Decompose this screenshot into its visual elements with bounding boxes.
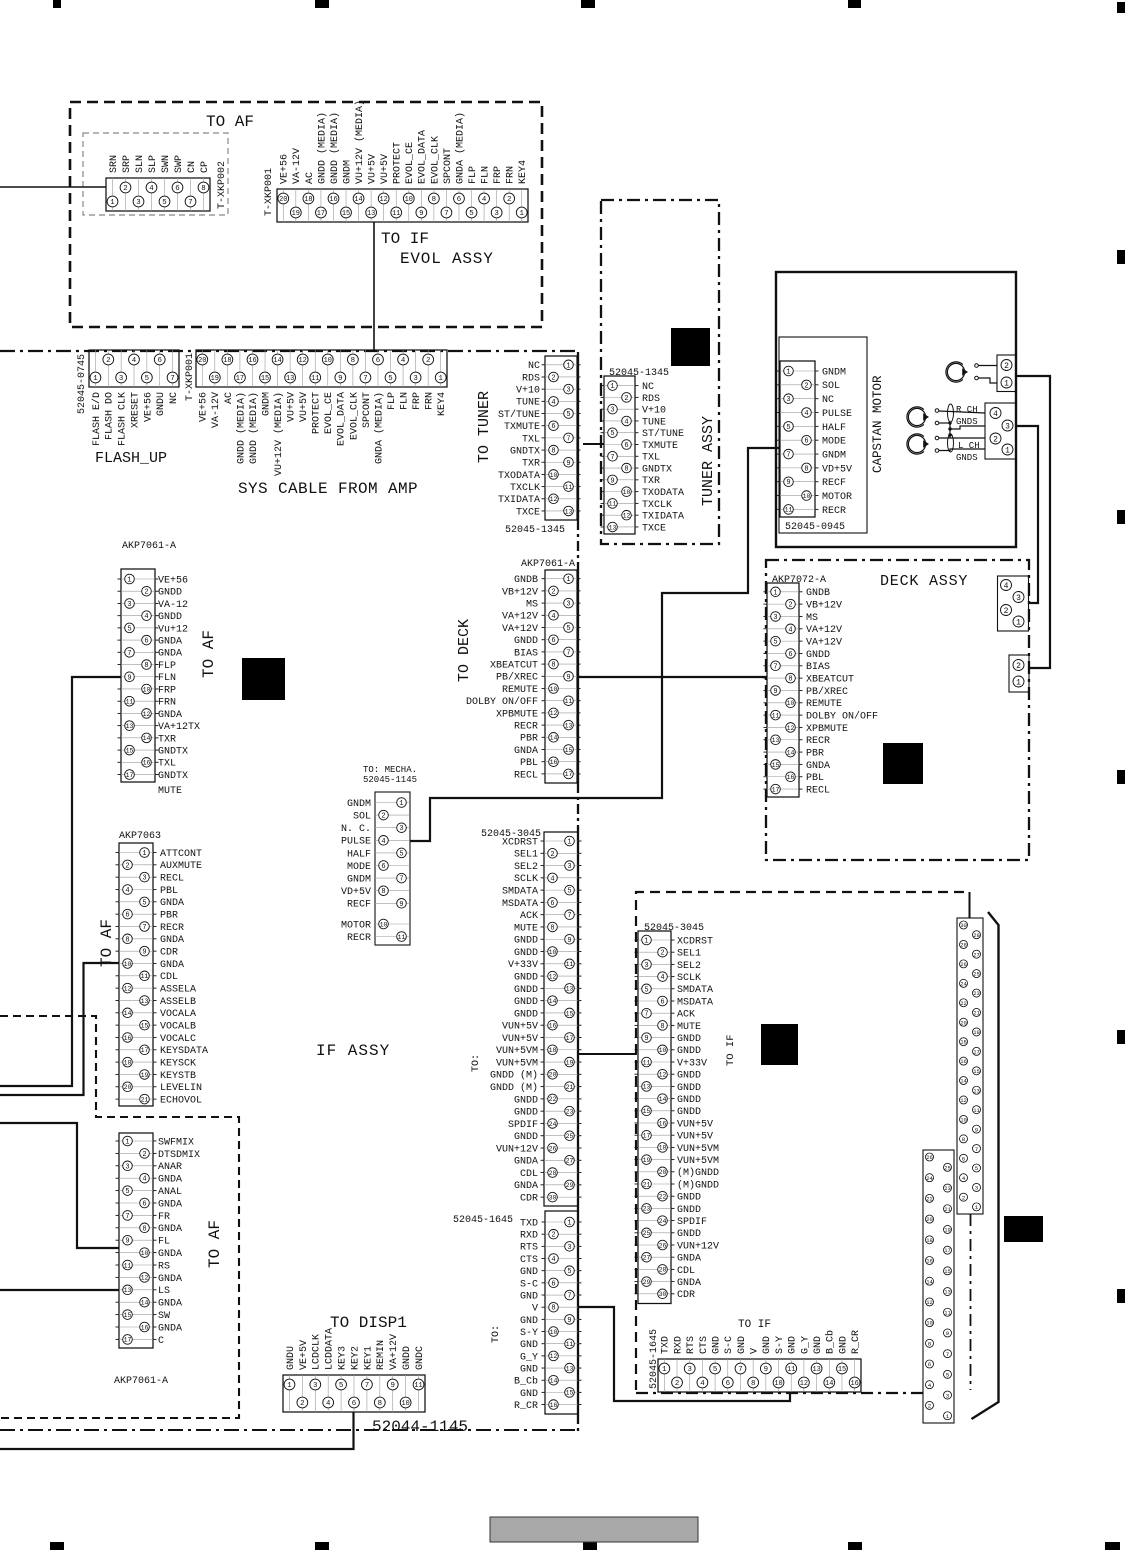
- svg-text:R CH: R CH: [956, 405, 978, 415]
- svg-text:25: 25: [566, 1133, 574, 1140]
- svg-text:7: 7: [127, 650, 131, 658]
- svg-text:CTS: CTS: [699, 1336, 710, 1354]
- svg-text:24: 24: [926, 1175, 933, 1182]
- svg-text:TXCE: TXCE: [642, 523, 666, 534]
- svg-text:7: 7: [567, 912, 571, 920]
- svg-text:PULSE: PULSE: [822, 409, 852, 420]
- svg-text:GNDA: GNDA: [158, 710, 182, 721]
- svg-text:1: 1: [644, 938, 648, 946]
- svg-text:11: 11: [565, 698, 573, 705]
- svg-text:4: 4: [788, 626, 792, 634]
- svg-text:GNDU: GNDU: [156, 392, 167, 416]
- svg-text:5: 5: [567, 1268, 571, 1276]
- svg-text:6: 6: [352, 1400, 356, 1408]
- svg-text:SCLK: SCLK: [514, 874, 538, 885]
- svg-text:14: 14: [659, 1096, 667, 1103]
- svg-text:11: 11: [126, 699, 134, 706]
- svg-text:3: 3: [688, 1366, 692, 1374]
- svg-text:8: 8: [432, 196, 436, 204]
- svg-text:XBEATCUT: XBEATCUT: [806, 675, 854, 686]
- svg-text:12: 12: [550, 710, 558, 717]
- svg-text:VU+5V: VU+5V: [368, 154, 379, 184]
- svg-text:TXD: TXD: [520, 1218, 538, 1229]
- svg-text:8: 8: [551, 1305, 555, 1313]
- svg-text:18: 18: [659, 1145, 667, 1152]
- svg-text:12: 12: [787, 725, 795, 732]
- svg-text:1: 1: [1005, 446, 1010, 455]
- svg-text:RECL: RECL: [806, 785, 830, 796]
- svg-text:VA+12V: VA+12V: [389, 1334, 400, 1370]
- svg-text:(M)GNDD: (M)GNDD: [677, 1179, 719, 1191]
- svg-text:AC: AC: [305, 172, 316, 184]
- svg-text:MS: MS: [806, 613, 818, 624]
- svg-text:24: 24: [549, 1121, 557, 1128]
- svg-text:9: 9: [567, 937, 571, 945]
- svg-text:3: 3: [773, 614, 777, 622]
- svg-text:MUTE: MUTE: [677, 1022, 701, 1033]
- svg-text:10: 10: [143, 686, 151, 693]
- chain line bottom left: [0, 1429, 578, 1431]
- svg-text:16: 16: [851, 1380, 859, 1388]
- svg-text:GND: GND: [788, 1336, 799, 1354]
- svg-text:V: V: [532, 1304, 538, 1315]
- svg-text:GNDA: GNDA: [160, 935, 184, 946]
- svg-text:B_Cb: B_Cb: [825, 1330, 837, 1354]
- registration mark right 5: [1117, 1289, 1125, 1303]
- svg-text:GNDA: GNDA: [158, 1274, 182, 1285]
- svg-text:7: 7: [566, 649, 570, 657]
- svg-text:1: 1: [946, 1413, 950, 1420]
- svg-text:FLASH E/D: FLASH E/D: [91, 392, 103, 446]
- svg-text:GNDD: GNDD: [514, 1009, 538, 1020]
- svg-text:4: 4: [551, 1256, 555, 1264]
- svg-text:27: 27: [973, 951, 980, 958]
- svg-text:NC: NC: [169, 392, 180, 404]
- svg-text:XRESET: XRESET: [130, 392, 141, 428]
- svg-text:2: 2: [426, 357, 430, 365]
- svg-text:4: 4: [660, 974, 664, 982]
- svg-text:9: 9: [567, 1317, 571, 1325]
- svg-text:30: 30: [960, 922, 967, 929]
- svg-text:11: 11: [785, 507, 793, 514]
- svg-text:14: 14: [787, 749, 795, 756]
- svg-text:RECF: RECF: [347, 900, 371, 911]
- svg-text:RECL: RECL: [514, 770, 538, 781]
- wire center 3045 pin19 to IF box: [578, 1053, 637, 1055]
- svg-text:2: 2: [962, 1194, 966, 1201]
- svg-text:1: 1: [773, 589, 777, 597]
- svg-text:52045-1645: 52045-1645: [649, 1329, 660, 1389]
- svg-text:2: 2: [381, 813, 385, 821]
- svg-text:7: 7: [365, 1382, 369, 1390]
- chain line right edge below strip: [970, 1214, 972, 1390]
- svg-text:5: 5: [339, 1382, 343, 1390]
- svg-text:5: 5: [145, 375, 149, 383]
- svg-text:14: 14: [550, 1378, 558, 1385]
- svg-text:10: 10: [550, 1329, 558, 1336]
- svg-text:1: 1: [1016, 618, 1021, 627]
- svg-text:VU+5V: VU+5V: [287, 392, 298, 422]
- svg-text:10: 10: [550, 472, 558, 479]
- svg-text:14: 14: [960, 1078, 967, 1085]
- svg-text:RECF: RECF: [822, 478, 846, 489]
- svg-text:ANAR: ANAR: [158, 1162, 182, 1173]
- registration mark bottom 1: [50, 1542, 64, 1550]
- svg-text:MUTE: MUTE: [514, 923, 538, 934]
- svg-text:GNDD: GNDD: [677, 1046, 701, 1057]
- svg-text:RDS: RDS: [642, 394, 660, 405]
- svg-text:6: 6: [144, 638, 148, 646]
- svg-text:7: 7: [786, 452, 790, 460]
- connector capstan 2pin: [997, 355, 1016, 392]
- svg-text:GNDTX: GNDTX: [158, 746, 188, 757]
- svg-text:4: 4: [1004, 582, 1009, 591]
- svg-text:23: 23: [944, 1185, 951, 1192]
- svg-text:20: 20: [926, 1216, 933, 1223]
- svg-text:1: 1: [439, 375, 444, 383]
- svg-text:SMDATA: SMDATA: [677, 985, 713, 996]
- svg-text:GNDA (MEDIA): GNDA (MEDIA): [454, 112, 466, 184]
- svg-text:GNDD: GNDD: [514, 936, 538, 947]
- svg-text:SPDIF: SPDIF: [677, 1217, 707, 1228]
- svg-text:13: 13: [566, 986, 574, 993]
- wire from EVOL T-XKP001 down to SYS cable connector: [373, 222, 375, 351]
- svg-text:GNDD: GNDD: [514, 636, 538, 647]
- svg-text:TXD: TXD: [661, 1336, 672, 1354]
- svg-text:1: 1: [1016, 678, 1021, 687]
- svg-text:SWP: SWP: [174, 155, 185, 173]
- svg-text:ACK: ACK: [520, 911, 538, 922]
- svg-text:GNDD (MEDIA): GNDD (MEDIA): [329, 112, 341, 184]
- svg-text:GNDD: GNDD: [677, 1071, 701, 1082]
- svg-text:TXR: TXR: [522, 459, 540, 470]
- svg-text:VA+12V: VA+12V: [502, 624, 538, 635]
- svg-text:28: 28: [960, 942, 967, 949]
- svg-text:22: 22: [960, 1000, 967, 1007]
- svg-text:19: 19: [643, 1157, 651, 1164]
- svg-text:6: 6: [624, 442, 628, 450]
- svg-text:7: 7: [170, 375, 174, 383]
- svg-text:GNDD: GNDD: [677, 1034, 701, 1045]
- lower TO AF dashed boundary: [0, 1016, 239, 1418]
- svg-text:2: 2: [804, 382, 808, 390]
- svg-text:FLN: FLN: [399, 392, 410, 410]
- svg-text:BIAS: BIAS: [806, 662, 830, 673]
- svg-text:SEL1: SEL1: [677, 949, 701, 960]
- svg-text:29: 29: [973, 932, 980, 939]
- svg-text:10: 10: [774, 1380, 782, 1388]
- svg-text:MUTE: MUTE: [158, 786, 182, 797]
- svg-text:SPDIF: SPDIF: [508, 1120, 538, 1131]
- svg-text:T-XKP001: T-XKP001: [185, 353, 196, 401]
- svg-text:9: 9: [764, 1366, 768, 1374]
- svg-text:6: 6: [726, 1380, 730, 1388]
- svg-text:2: 2: [551, 1232, 555, 1240]
- svg-text:6: 6: [928, 1361, 932, 1368]
- svg-text:XCDRST: XCDRST: [677, 936, 713, 947]
- svg-text:TO DECK: TO DECK: [456, 619, 473, 682]
- svg-text:FRN: FRN: [158, 698, 176, 709]
- svg-text:GND: GND: [711, 1336, 722, 1354]
- svg-text:6: 6: [660, 999, 664, 1007]
- svg-text:5: 5: [713, 1366, 717, 1374]
- wire AF1 pin9 to left edge: [0, 677, 121, 1086]
- svg-text:XPBMUTE: XPBMUTE: [806, 724, 848, 735]
- svg-text:10: 10: [141, 1250, 149, 1257]
- svg-text:V+10: V+10: [642, 406, 666, 417]
- svg-text:RECR: RECR: [160, 923, 184, 934]
- svg-text:FLP: FLP: [158, 661, 176, 672]
- svg-text:15: 15: [566, 1390, 574, 1397]
- wire capstan 2pin to deck 2pin: [1016, 376, 1050, 668]
- svg-text:GNDD (MEDIA): GNDD (MEDIA): [248, 392, 260, 464]
- svg-text:7: 7: [399, 876, 403, 884]
- svg-text:6: 6: [457, 196, 461, 204]
- svg-text:15: 15: [643, 1108, 651, 1115]
- svg-text:9: 9: [566, 460, 570, 468]
- svg-text:22: 22: [926, 1196, 933, 1203]
- svg-text:5: 5: [566, 411, 570, 419]
- title block gray bar: [490, 1517, 698, 1542]
- head wires: [939, 411, 985, 413]
- svg-text:AKP7061-A: AKP7061-A: [114, 1376, 168, 1387]
- svg-text:16: 16: [659, 1120, 667, 1127]
- svg-text:3: 3: [946, 1392, 950, 1399]
- svg-text:15: 15: [772, 762, 780, 769]
- svg-text:11: 11: [973, 1107, 980, 1114]
- svg-text:SYS CABLE FROM AMP: SYS CABLE FROM AMP: [238, 480, 418, 498]
- connector T-XKP001 (SYS CABLE): [196, 350, 447, 387]
- svg-text:4: 4: [804, 410, 808, 418]
- svg-text:17: 17: [236, 375, 244, 383]
- svg-text:GND: GND: [737, 1336, 748, 1354]
- svg-text:1: 1: [287, 1382, 292, 1390]
- svg-text:2: 2: [1016, 662, 1021, 671]
- svg-text:GNDA (MEDIA): GNDA (MEDIA): [373, 392, 385, 464]
- svg-text:(M)GNDD: (M)GNDD: [677, 1167, 719, 1179]
- svg-text:GND: GND: [520, 1267, 538, 1278]
- svg-text:18: 18: [926, 1237, 933, 1244]
- svg-text:TO AF: TO AF: [206, 113, 254, 131]
- svg-text:V+33V: V+33V: [508, 960, 538, 971]
- svg-text:5: 5: [125, 1188, 129, 1196]
- svg-text:1: 1: [399, 800, 403, 808]
- svg-text:RDS: RDS: [522, 373, 540, 384]
- svg-text:13: 13: [124, 1287, 132, 1294]
- svg-text:12: 12: [124, 986, 132, 993]
- svg-text:TXL: TXL: [522, 434, 540, 445]
- svg-text:2: 2: [106, 357, 110, 365]
- svg-text:3: 3: [786, 396, 790, 404]
- svg-text:5: 5: [142, 899, 146, 907]
- svg-text:17: 17: [126, 772, 134, 779]
- svg-text:15: 15: [566, 1010, 574, 1017]
- svg-text:4: 4: [551, 399, 555, 407]
- svg-text:18: 18: [549, 1047, 557, 1054]
- svg-text:9: 9: [391, 1382, 395, 1390]
- svg-text:EVOL ASSY: EVOL ASSY: [400, 250, 494, 268]
- svg-text:VU+12V (MEDIA): VU+12V (MEDIA): [273, 392, 285, 476]
- svg-text:G_Y: G_Y: [520, 1352, 538, 1363]
- svg-text:3: 3: [1016, 594, 1021, 603]
- svg-text:GND: GND: [520, 1364, 538, 1375]
- svg-text:V+33V: V+33V: [677, 1058, 707, 1069]
- svg-text:7: 7: [567, 1293, 571, 1301]
- connector strip 30pin: [957, 918, 983, 1214]
- svg-text:GNDB: GNDB: [806, 588, 830, 599]
- svg-text:RECR: RECR: [514, 722, 538, 733]
- svg-text:16: 16: [550, 759, 558, 766]
- svg-text:V+10: V+10: [516, 386, 540, 397]
- svg-text:GNDD: GNDD: [514, 1132, 538, 1143]
- svg-text:TXIDATA: TXIDATA: [498, 495, 540, 506]
- svg-text:14: 14: [926, 1278, 933, 1285]
- svg-text:2: 2: [624, 395, 628, 403]
- svg-text:GNDD (M): GNDD (M): [490, 1082, 538, 1094]
- svg-text:PBL: PBL: [520, 758, 538, 769]
- svg-text:2: 2: [507, 196, 511, 204]
- svg-text:20: 20: [198, 357, 206, 365]
- svg-text:TO:: TO:: [491, 1325, 502, 1343]
- connector 52045-3045 right: [638, 931, 671, 1304]
- svg-text:2: 2: [125, 862, 129, 870]
- svg-text:CDR: CDR: [520, 1194, 538, 1205]
- svg-text:19: 19: [292, 210, 300, 218]
- svg-text:21: 21: [973, 1010, 980, 1017]
- svg-text:RTS: RTS: [520, 1243, 538, 1254]
- svg-text:LCDCLK: LCDCLK: [312, 1334, 323, 1370]
- svg-text:PBL: PBL: [806, 773, 824, 784]
- svg-text:5: 5: [644, 986, 648, 994]
- svg-text:FLP: FLP: [387, 392, 398, 410]
- connector 52045-1145 MECHA: [375, 792, 410, 945]
- svg-text:VUN+5V: VUN+5V: [502, 1034, 538, 1045]
- capstan inner box: [779, 337, 867, 533]
- svg-text:11: 11: [311, 375, 319, 383]
- svg-text:5: 5: [566, 625, 570, 633]
- svg-text:7: 7: [363, 375, 367, 383]
- svg-text:9: 9: [610, 477, 614, 485]
- connector AKP7063: [119, 843, 153, 1106]
- svg-text:R_CR: R_CR: [851, 1330, 862, 1354]
- svg-text:12: 12: [380, 196, 388, 204]
- svg-text:VA+12V: VA+12V: [806, 638, 842, 649]
- svg-text:LS: LS: [158, 1286, 170, 1297]
- svg-text:11: 11: [566, 961, 574, 968]
- svg-text:NC: NC: [822, 395, 834, 406]
- svg-text:8: 8: [378, 1400, 382, 1408]
- svg-text:5: 5: [567, 888, 571, 896]
- svg-text:8: 8: [125, 936, 129, 944]
- svg-text:VE+56: VE+56: [280, 154, 291, 184]
- redaction square left: [242, 658, 285, 700]
- svg-text:15: 15: [124, 1312, 132, 1319]
- svg-text:15: 15: [973, 1068, 980, 1075]
- svg-text:10: 10: [549, 949, 557, 956]
- svg-text:1: 1: [786, 369, 790, 377]
- svg-text:15: 15: [141, 1023, 149, 1030]
- svg-text:10: 10: [926, 1320, 933, 1327]
- svg-text:11: 11: [414, 1382, 422, 1390]
- svg-text:S-C: S-C: [520, 1279, 538, 1290]
- connector AKP7061-A TO DECK: [545, 570, 577, 783]
- svg-text:1: 1: [127, 577, 131, 585]
- svg-text:GNDA: GNDA: [158, 1299, 182, 1310]
- svg-text:21: 21: [141, 1096, 149, 1103]
- EVOL ASSY outer dashed box: [70, 102, 542, 327]
- svg-text:S-Y: S-Y: [520, 1328, 538, 1339]
- svg-text:15: 15: [342, 210, 350, 218]
- svg-text:7: 7: [610, 454, 614, 462]
- svg-text:6: 6: [804, 438, 808, 446]
- svg-text:HALF: HALF: [822, 423, 846, 434]
- svg-text:4: 4: [550, 875, 554, 883]
- svg-text:ANAL: ANAL: [158, 1187, 182, 1198]
- svg-text:3: 3: [567, 863, 571, 871]
- svg-text:TXCE: TXCE: [516, 507, 540, 518]
- svg-text:VUN+5V: VUN+5V: [677, 1119, 713, 1130]
- svg-text:GNDD: GNDD: [514, 985, 538, 996]
- svg-text:9: 9: [975, 1126, 979, 1133]
- svg-text:Vu+12: Vu+12: [158, 624, 188, 635]
- svg-text:12: 12: [141, 1275, 149, 1282]
- svg-text:6: 6: [157, 357, 161, 365]
- svg-text:RXD: RXD: [520, 1231, 538, 1242]
- svg-text:GNDA: GNDA: [160, 960, 184, 971]
- connector 52045-1645 center: [545, 1211, 578, 1414]
- svg-text:GNDA: GNDA: [806, 761, 830, 772]
- svg-text:13: 13: [565, 508, 573, 515]
- svg-text:FRN: FRN: [425, 392, 436, 410]
- svg-text:8: 8: [144, 662, 148, 670]
- svg-text:12: 12: [549, 973, 557, 980]
- connector 52044-1145 TO DISP1: [283, 1375, 425, 1412]
- svg-text:2: 2: [660, 950, 664, 958]
- svg-text:GNDS: GNDS: [956, 453, 978, 463]
- svg-text:TXODATA: TXODATA: [642, 488, 684, 499]
- svg-text:10: 10: [623, 489, 631, 496]
- svg-text:T-XKP002: T-XKP002: [217, 161, 228, 209]
- svg-text:3: 3: [119, 375, 123, 383]
- svg-text:2: 2: [551, 375, 555, 383]
- svg-text:CDL: CDL: [520, 1169, 538, 1180]
- svg-text:3: 3: [413, 375, 417, 383]
- svg-text:VUN+12V: VUN+12V: [677, 1241, 719, 1252]
- svg-text:20: 20: [659, 1169, 667, 1176]
- svg-text:VUN+5V: VUN+5V: [677, 1132, 713, 1143]
- svg-text:FR: FR: [158, 1212, 170, 1223]
- svg-text:DOLBY ON/OFF: DOLBY ON/OFF: [806, 711, 878, 723]
- svg-text:KEY4: KEY4: [437, 392, 448, 416]
- svg-text:XBEATCUT: XBEATCUT: [490, 661, 538, 672]
- svg-text:MSDATA: MSDATA: [502, 899, 538, 910]
- svg-text:28: 28: [659, 1267, 667, 1274]
- svg-text:B_Cb: B_Cb: [514, 1376, 538, 1388]
- svg-text:19: 19: [141, 1072, 149, 1079]
- svg-text:SWFMIX: SWFMIX: [158, 1137, 194, 1148]
- svg-text:8: 8: [804, 465, 808, 473]
- svg-text:AKP7061-A: AKP7061-A: [521, 559, 575, 570]
- svg-text:FLASH DO: FLASH DO: [105, 392, 116, 440]
- svg-text:TXCLK: TXCLK: [642, 500, 672, 511]
- svg-text:PULSE: PULSE: [341, 837, 371, 848]
- svg-text:CAPSTAN MOTOR: CAPSTAN MOTOR: [871, 375, 885, 473]
- registration mark bottom 3: [583, 1542, 597, 1550]
- svg-text:10: 10: [405, 196, 413, 204]
- svg-text:3: 3: [644, 962, 648, 970]
- svg-text:SLN: SLN: [135, 155, 146, 173]
- svg-text:25: 25: [643, 1230, 651, 1237]
